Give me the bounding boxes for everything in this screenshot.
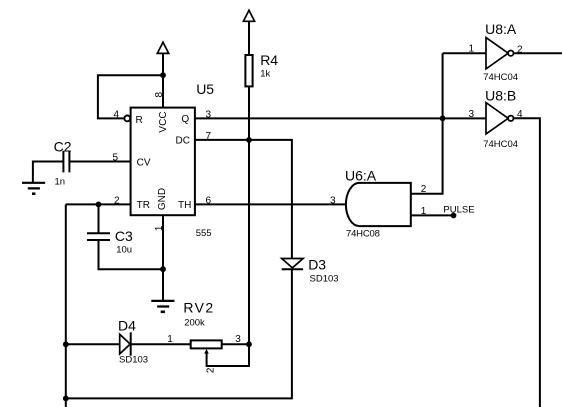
- svg-text:3: 3: [468, 109, 474, 120]
- svg-text:4: 4: [517, 109, 523, 120]
- svg-text:1: 1: [154, 225, 165, 231]
- svg-text:1: 1: [468, 44, 474, 55]
- svg-text:Q: Q: [181, 114, 189, 125]
- svg-text:CV: CV: [137, 158, 151, 169]
- svg-text:2: 2: [206, 367, 217, 373]
- svg-text:74HC04: 74HC04: [483, 72, 518, 83]
- svg-text:U6:A: U6:A: [345, 168, 377, 184]
- svg-text:U8:B: U8:B: [485, 88, 516, 104]
- svg-text:6: 6: [206, 195, 212, 206]
- svg-text:GND: GND: [157, 188, 168, 210]
- svg-text:D3: D3: [308, 257, 326, 273]
- svg-text:7: 7: [206, 131, 212, 142]
- svg-text:R4: R4: [260, 52, 278, 68]
- svg-text:U5: U5: [196, 81, 214, 97]
- svg-text:1: 1: [421, 206, 427, 217]
- svg-text:5: 5: [112, 152, 118, 163]
- svg-text:TR: TR: [137, 200, 150, 211]
- svg-text:DC: DC: [176, 136, 190, 147]
- svg-text:74HC08: 74HC08: [346, 228, 380, 239]
- svg-text:U8:A: U8:A: [485, 21, 517, 37]
- svg-text:RV2: RV2: [183, 300, 214, 316]
- svg-text:SD103: SD103: [119, 355, 148, 366]
- svg-text:2: 2: [114, 195, 120, 206]
- svg-text:C3: C3: [115, 228, 133, 244]
- svg-text:10u: 10u: [116, 245, 132, 256]
- svg-text:1: 1: [167, 334, 173, 345]
- svg-text:3: 3: [235, 334, 241, 345]
- svg-text:3: 3: [206, 109, 212, 120]
- svg-text:VCC: VCC: [158, 111, 169, 132]
- svg-text:R: R: [136, 115, 143, 126]
- svg-text:3: 3: [330, 195, 336, 206]
- svg-text:1k: 1k: [260, 68, 270, 79]
- svg-text:2: 2: [421, 184, 427, 195]
- svg-text:2: 2: [517, 44, 523, 55]
- svg-text:555: 555: [196, 228, 212, 239]
- svg-text:D4: D4: [118, 318, 136, 334]
- svg-text:8: 8: [154, 91, 165, 97]
- svg-text:TH: TH: [178, 200, 191, 211]
- svg-text:PULSE: PULSE: [443, 204, 474, 215]
- svg-text:SD103: SD103: [310, 273, 339, 284]
- svg-text:C2: C2: [54, 138, 72, 154]
- svg-text:74HC04: 74HC04: [483, 139, 518, 150]
- svg-text:4: 4: [113, 109, 119, 120]
- svg-text:200k: 200k: [184, 317, 205, 328]
- svg-text:1n: 1n: [55, 176, 66, 187]
